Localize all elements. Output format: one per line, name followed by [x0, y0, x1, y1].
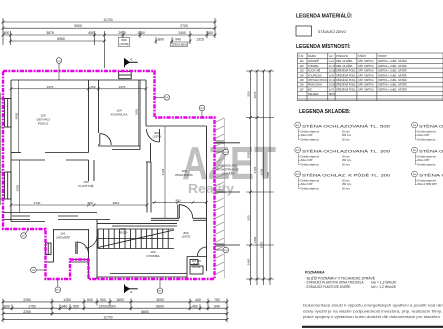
svg-text:2460: 2460	[247, 258, 251, 265]
svg-text:30 mm: 30 mm	[342, 163, 350, 166]
svg-text:Omítka vápenoc.: Omítka vápenoc.	[301, 187, 320, 190]
svg-text:Zdivo CPP: Zdivo CPP	[417, 134, 429, 137]
svg-text:OMÍTKA + 2xBÍL. NÁTĚR: OMÍTKA + 2xBÍL. NÁTĚR	[378, 79, 407, 82]
top dimension block	[3, 18, 215, 68]
magenta dashed building outline	[3, 71, 215, 279]
svg-text:750: 750	[214, 298, 220, 302]
svg-text:Omítka vápenoc.: Omítka vápenoc.	[417, 163, 436, 166]
svg-text:500: 500	[247, 91, 251, 96]
svg-text:450: 450	[90, 85, 95, 89]
entry S03	[295, 171, 390, 190]
stairs	[98, 228, 174, 230]
svg-text:DŘEVĚNÁ PODL.: DŘEVĚNÁ PODL.	[336, 74, 357, 77]
svg-text:600: 600	[87, 201, 92, 205]
svg-text:STROP: STROP	[378, 55, 387, 58]
svg-text:STĚNY: STĚNY	[358, 55, 367, 58]
interior dim ticks	[10, 87, 208, 206]
svg-text:900: 900	[175, 198, 180, 202]
kitchen bottom wall band	[3, 212, 97, 214]
svg-text:STĚNA OCHLAZ. K P: STĚNA OCHLAZ. K P	[419, 172, 443, 177]
svg-text:VÁP. OMÍTKA: VÁP. OMÍTKA	[358, 74, 374, 77]
svg-text:2460: 2460	[253, 236, 257, 243]
svg-text:8650: 8650	[141, 310, 149, 314]
svg-text:KOUPELNA: KOUPELNA	[111, 113, 129, 117]
svg-text:m2: m2	[329, 55, 333, 58]
svg-text:VÁP. OMÍTKA: VÁP. OMÍTKA	[358, 70, 374, 73]
svg-text:4550: 4550	[15, 112, 19, 119]
svg-text:2250: 2250	[23, 298, 31, 302]
svg-text:1200: 1200	[137, 31, 145, 35]
section mark bottom	[125, 284, 138, 294]
svg-text:3575: 3575	[253, 91, 257, 98]
svg-text:106: 106	[300, 84, 305, 87]
nika wall right of koupelna	[150, 143, 152, 162]
svg-text:Omítka vápenná: Omítka vápenná	[417, 180, 436, 183]
entry S02	[295, 147, 390, 166]
svg-text:650: 650	[73, 304, 79, 308]
svg-text:107: 107	[300, 88, 305, 91]
svg-text:940: 940	[175, 37, 181, 41]
svg-text:KER. DLAŽBA: KER. DLAŽBA	[336, 60, 353, 63]
svg-text:PODLAHA: PODLAHA	[336, 55, 348, 58]
svg-text:OMÍTKA + 2xBÍL. NÁTĚR: OMÍTKA + 2xBÍL. NÁTĚR	[378, 65, 407, 68]
table	[298, 53, 443, 101]
svg-text:1315: 1315	[196, 37, 204, 41]
room 105 bottom wall band	[11, 152, 21, 154]
svg-text:3230: 3230	[260, 168, 264, 175]
svg-text:3975: 3975	[47, 85, 54, 89]
svg-text:2975: 2975	[119, 85, 126, 89]
svg-text:STĚNA OCHLAZOVANÁ: STĚNA OCHLAZOVANÁ	[419, 123, 443, 128]
svg-text:OMÍTKA + 2xBÍL. NÁTĚR: OMÍTKA + 2xBÍL. NÁTĚR	[378, 88, 407, 91]
top wall inner face	[11, 79, 146, 81]
svg-text:STĚNA OCHLAZ. K PŮDĚ TL. 300: STĚNA OCHLAZ. K PŮDĚ TL. 300	[302, 172, 390, 177]
svg-text:NÁZEV: NÁZEV	[308, 55, 317, 58]
svg-text:POZNÁMKA: POZNÁMKA	[305, 270, 325, 275]
svg-text:OMÍTKA + 2xBÍL. NÁTĚR: OMÍTKA + 2xBÍL. NÁTĚR	[378, 70, 407, 73]
svg-text:2,21: 2,21	[329, 60, 334, 63]
pracovna bottom wall band	[151, 217, 179, 219]
garage hatched wall band	[216, 118, 224, 274]
skladba circles with leaders	[21, 58, 229, 294]
svg-text:4725: 4725	[161, 168, 165, 175]
svg-text:5600: 5600	[156, 304, 164, 308]
zadveri entry door leaf + arc	[75, 242, 77, 255]
svg-text:450 mm: 450 mm	[342, 134, 351, 137]
svg-text:KOUPELNA: KOUPELNA	[308, 74, 322, 77]
svg-text:- STÁVAJÍCÍ PLASTOVÉ DVEŘE: - STÁVAJÍCÍ PLASTOVÉ DVEŘE	[305, 284, 352, 289]
bottom dimension block	[3, 298, 227, 322]
svg-text:460: 460	[192, 304, 198, 308]
garage side wall edge	[224, 118, 226, 278]
svg-text:20 mm: 20 mm	[342, 156, 350, 159]
svg-text:500: 500	[4, 304, 10, 308]
chodba north wall west part	[97, 223, 177, 225]
svg-text:OMÍTKA + 2xBÍL. NÁTĚR: OMÍTKA + 2xBÍL. NÁTĚR	[378, 60, 407, 63]
door arc koupelna	[147, 129, 160, 142]
svg-text:(1970): (1970)	[182, 235, 191, 239]
koupelna right wall	[139, 80, 141, 150]
svg-text:KUCHYNĚ: KUCHYNĚ	[78, 183, 93, 188]
svg-text:Omítka vápenoc.: Omítka vápenoc.	[417, 138, 436, 141]
svg-text:8,74: 8,74	[329, 88, 334, 91]
top dimension ticks	[2, 21, 217, 43]
svg-text:VÁP. OMÍTKA: VÁP. OMÍTKA	[358, 60, 374, 63]
room labels	[36, 109, 239, 270]
svg-text:20 mm: 20 mm	[342, 131, 350, 134]
svg-text:PRACOVNA: PRACOVNA	[175, 173, 193, 177]
svg-text:7980: 7980	[266, 171, 270, 178]
svg-text:Omítka vápenná: Omítka vápenná	[417, 156, 436, 159]
bottom paragraph	[303, 304, 443, 320]
svg-text:LEGENDA MATERIÁLŮ:: LEGENDA MATERIÁLŮ:	[296, 12, 353, 20]
svg-text:Zdivo 17059 CPP: Zdivo 17059 CPP	[417, 183, 437, 186]
svg-text:CHODBA: CHODBA	[308, 65, 319, 68]
svg-text:(2020): (2020)	[119, 231, 128, 235]
svg-text:14,56: 14,56	[329, 84, 336, 87]
svg-text:ZÁDVEŘÍ: ZÁDVEŘÍ	[308, 60, 319, 63]
svg-text:(1500): (1500)	[120, 42, 129, 46]
svg-text:102: 102	[300, 65, 305, 68]
svg-text:OMÍTKA + 2xBÍL. NÁTĚR: OMÍTKA + 2xBÍL. NÁTĚR	[378, 74, 407, 77]
interior dim lines	[11, 88, 146, 90]
svg-text:WC: WC	[308, 88, 312, 91]
svg-text:STĚNA OCHLAZOVANÁ: STĚNA OCHLAZOVANÁ	[419, 148, 443, 153]
entry S01	[295, 122, 390, 141]
svg-text:Omítka vápenoc.: Omítka vápenoc.	[301, 138, 320, 141]
svg-text:STÁVAJÍCÍ ZDIVO: STÁVAJÍCÍ ZDIVO	[318, 30, 347, 34]
svg-text:2730: 2730	[34, 201, 41, 205]
svg-text:88,51: 88,51	[329, 93, 336, 96]
svg-text:Zdivo CPP: Zdivo CPP	[301, 134, 313, 137]
svg-text:2700: 2700	[180, 24, 188, 28]
svg-text:OMÍTKA + 2xBÍL. NÁTĚR: OMÍTKA + 2xBÍL. NÁTĚR	[378, 84, 407, 87]
right wall inner face	[206, 126, 208, 271]
svg-text:DŘEVĚNÁ PODL.: DŘEVĚNÁ PODL.	[336, 88, 357, 91]
svg-text:PRACOVNA: PRACOVNA	[308, 84, 322, 87]
svg-text:11700: 11700	[103, 316, 112, 320]
svg-text:CELKEM: CELKEM	[308, 93, 318, 96]
svg-text:KER. DLAŽBA: KER. DLAŽBA	[336, 65, 353, 68]
svg-text:500: 500	[247, 215, 251, 220]
svg-text:4725: 4725	[253, 166, 257, 173]
svg-text:DŘEVĚNÁ PODL.: DŘEVĚNÁ PODL.	[336, 79, 357, 82]
right column entries (cut off)	[412, 122, 443, 141]
section mark top	[125, 57, 138, 68]
zadveri walls	[53, 229, 55, 262]
window top wall koupelna	[119, 72, 132, 79]
svg-text:Omítka vápenná: Omítka vápenná	[417, 131, 436, 134]
svg-text:101: 101	[300, 60, 305, 63]
svg-text:účely využití je na vlastní zo: účely využití je na vlastní zodpovědnost…	[303, 309, 442, 313]
svg-text:3050: 3050	[16, 184, 20, 191]
svg-text:250 mm: 250 mm	[342, 183, 351, 186]
svg-text:Omítka vápenná: Omítka vápenná	[301, 156, 320, 159]
svg-text:20 mm: 20 mm	[342, 180, 350, 183]
svg-text:STĚNA OCHLAZOVANÁ TL. 300: STĚNA OCHLAZOVANÁ TL. 300	[302, 148, 390, 153]
top dimension labels	[4, 18, 213, 41]
svg-text:Č.M.: Č.M.	[299, 55, 305, 58]
WC room	[187, 256, 207, 258]
svg-text:OBÝVACÍ POKOJ: OBÝVACÍ POKOJ	[308, 79, 329, 82]
svg-text:KOTEL: KOTEL	[192, 265, 201, 269]
svg-text:3000: 3000	[156, 298, 164, 302]
svg-text:105: 105	[300, 79, 305, 82]
wall 105/104 band	[88, 80, 90, 153]
svg-text:Reality: Reality	[188, 182, 234, 196]
svg-text:450: 450	[88, 31, 94, 35]
svg-text:600: 600	[87, 298, 93, 302]
POZNAMKA	[305, 270, 398, 289]
svg-text:DŘEVĚNÁ PODL.: DŘEVĚNÁ PODL.	[336, 70, 357, 73]
svg-text:104: 104	[300, 74, 305, 77]
svg-text:2810: 2810	[113, 201, 120, 205]
svg-text:LEGENDA SKLADEB:: LEGENDA SKLADEB:	[299, 109, 351, 115]
kitchen right opening wall	[88, 160, 90, 181]
svg-text:500: 500	[4, 31, 10, 35]
door leaf + arc pracovna/chodba	[177, 205, 179, 219]
svg-text:práce spojeny s výstavbou nutn: práce spojeny s výstavbou nutno dodržet …	[303, 315, 440, 319]
svg-text:VÁP. OMÍTKA: VÁP. OMÍTKA	[358, 65, 374, 68]
svg-text:DŘEVĚNÁ PODL.: DŘEVĚNÁ PODL.	[336, 84, 357, 87]
svg-text:1290(1850): 1290(1850)	[171, 43, 187, 47]
svg-text:940: 940	[62, 304, 68, 308]
left edge dim line	[0, 93, 3, 205]
svg-text:640: 640	[214, 304, 220, 308]
svg-text:3575: 3575	[260, 241, 264, 248]
svg-text:30 mm: 30 mm	[342, 138, 350, 141]
svg-text:16,13: 16,13	[329, 79, 336, 82]
zadveri to chodba door arc	[85, 236, 97, 248]
svg-text:2250: 2250	[23, 310, 31, 314]
svg-text:1200(2600): 1200(2600)	[98, 304, 115, 308]
step wall right of koupelna: inner faces	[145, 80, 147, 126]
svg-text:CHODBA: CHODBA	[146, 254, 160, 258]
svg-text:1981: 1981	[135, 108, 139, 115]
svg-text:Omítka vápenná: Omítka vápenná	[301, 180, 320, 183]
svg-text:900: 900	[100, 298, 106, 302]
boxed label 980(1500)	[119, 38, 188, 47]
interior dim labels	[15, 85, 191, 239]
window left wall lower	[5, 172, 12, 199]
svg-text:Zdivo CPP: Zdivo CPP	[417, 159, 429, 162]
svg-text:Omítka vápenoc.: Omítka vápenoc.	[301, 163, 320, 166]
svg-text:1750: 1750	[28, 304, 36, 308]
svg-text:3875: 3875	[46, 31, 54, 35]
window left wall upper	[5, 99, 12, 128]
svg-text:Dokumentace slouží k výpočtu e: Dokumentace slouží k výpočtu energetický…	[303, 304, 443, 308]
svg-text:Zdivo CPP: Zdivo CPP	[301, 159, 313, 162]
bottom right bar	[302, 326, 443, 328]
kitchen bottom wall window sills	[12, 215, 30, 217]
chodba bottom wall	[110, 273, 187, 275]
svg-text:Omítka vápenná: Omítka vápenná	[301, 131, 320, 134]
svg-text:8,65: 8,65	[329, 74, 334, 77]
svg-text:2000: 2000	[247, 151, 251, 158]
svg-text:500: 500	[207, 31, 213, 35]
svg-text:9000: 9000	[74, 24, 82, 28]
svg-text:POKOJ: POKOJ	[38, 122, 49, 126]
svg-text:1600: 1600	[116, 298, 124, 302]
right vertical dimension chains	[246, 71, 274, 285]
svg-text:Zdivo CPP: Zdivo CPP	[301, 183, 313, 186]
svg-text:250 mm: 250 mm	[342, 159, 351, 162]
svg-text:11,70: 11,70	[329, 65, 336, 68]
watermark AZET	[182, 137, 276, 196]
svg-text:LEGENDA MÍSTNOSTÍ:: LEGENDA MÍSTNOSTÍ:	[296, 42, 351, 50]
svg-text:VÁP. OMÍTKA: VÁP. OMÍTKA	[358, 84, 374, 87]
svg-text:2975: 2975	[118, 31, 126, 35]
svg-text:KUCHYNĚ: KUCHYNĚ	[308, 70, 321, 73]
svg-text:800: 800	[158, 37, 164, 41]
svg-text:GARÁŽE: GARÁŽE	[222, 171, 235, 176]
svg-text:(1970): (1970)	[153, 135, 162, 139]
svg-text:1250: 1250	[63, 298, 71, 302]
svg-text:13,38: 13,38	[329, 70, 336, 73]
zadveri left window	[46, 243, 52, 255]
plan interior walls (black)	[3, 72, 240, 280]
svg-text:2400: 2400	[178, 31, 186, 35]
koupelna bottom wall	[99, 145, 141, 147]
garage stub walls	[215, 142, 240, 144]
svg-text:VÁP. OMÍTKA: VÁP. OMÍTKA	[358, 79, 374, 82]
svg-text:11700: 11700	[103, 18, 112, 22]
svg-text:Ud = 1,2 W/m2K: Ud = 1,2 W/m2K	[371, 285, 397, 289]
svg-text:6960: 6960	[57, 37, 65, 41]
chodba/kitchen separating wall	[146, 162, 148, 213]
svg-text:STĚNA OCHLAZOVANÁ TL. 500: STĚNA OCHLAZOVANÁ TL. 500	[302, 123, 390, 128]
svg-text:440: 440	[195, 298, 201, 302]
svg-text:VÁP. OMÍTKA: VÁP. OMÍTKA	[358, 88, 374, 91]
svg-text:30 mm: 30 mm	[342, 187, 350, 190]
left wall inner face	[10, 80, 12, 222]
svg-text:ZÁDVEŘÍ: ZÁDVEŘÍ	[56, 235, 70, 240]
svg-text:103: 103	[300, 70, 305, 73]
